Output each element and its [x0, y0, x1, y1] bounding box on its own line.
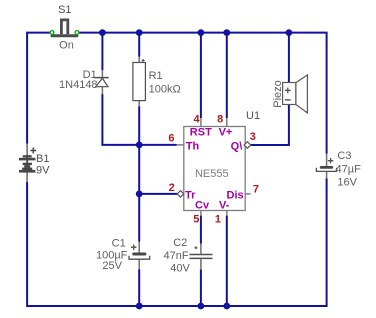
svg-text:47µF: 47µF	[336, 163, 362, 175]
svg-text:NE555: NE555	[195, 168, 229, 180]
capacitor C3 pins	[326, 154, 328, 179]
battery B1 plates	[19, 155, 35, 173]
wire top to piezo	[288, 33, 290, 87]
capacitor C3 bracket plate	[316, 168, 336, 172]
IC U1 NE555 body	[184, 127, 245, 211]
pin 2 diamond	[177, 191, 184, 198]
junction node ground C2	[198, 303, 205, 310]
svg-text:V+: V+	[219, 127, 233, 139]
junction node Th	[136, 142, 143, 149]
battery B1 pins	[26, 144, 28, 183]
svg-text:C2: C2	[173, 237, 187, 249]
capacitor C1 pins	[138, 242, 140, 270]
svg-text:3: 3	[250, 131, 256, 143]
resistor R1	[133, 63, 146, 101]
wire switch to top-right down to C3	[79, 33, 327, 154]
svg-text:4: 4	[193, 114, 200, 126]
svg-text:8: 8	[217, 114, 223, 126]
pin stub 4	[200, 118, 202, 127]
svg-text:Cv: Cv	[195, 199, 210, 211]
wire R1 bottom to C1	[138, 106, 140, 241]
svg-text:V-: V-	[219, 199, 230, 211]
wire pin5 to C2	[200, 216, 202, 244]
wire D1 branch upper	[101, 33, 103, 71]
junction node top D1	[99, 29, 106, 36]
svg-text:U1: U1	[246, 110, 260, 122]
svg-text:100kΩ: 100kΩ	[149, 84, 181, 96]
svg-text:S1: S1	[58, 4, 71, 16]
junction node ground pin1	[223, 303, 230, 310]
pin stub 5	[200, 211, 202, 216]
svg-text:RST: RST	[190, 127, 212, 139]
wire bottom loop left-bottom-right	[27, 178, 327, 306]
svg-text:40V: 40V	[170, 262, 190, 274]
diode D1	[94, 77, 109, 79]
C3 plus sign	[328, 158, 333, 163]
diode D1 pins	[101, 70, 103, 95]
wire pin8 up	[226, 33, 228, 118]
svg-text:1: 1	[215, 213, 221, 225]
wire C2 to ground rail	[200, 270, 202, 307]
svg-text:C1: C1	[112, 238, 126, 250]
svg-text:7: 7	[253, 184, 259, 196]
wire R1 branch upper	[138, 33, 140, 57]
svg-text:5: 5	[193, 213, 199, 225]
wire pin4 up	[200, 33, 202, 118]
junction node Tr	[136, 191, 143, 198]
switch S1	[50, 20, 79, 37]
svg-text:On: On	[59, 40, 74, 52]
svg-text:16V: 16V	[337, 177, 357, 189]
piezo plus	[285, 88, 291, 94]
wire piezo to pin3	[250, 101, 289, 145]
piezo horn	[296, 75, 308, 113]
pin stub 8	[226, 118, 228, 127]
svg-text:R1: R1	[149, 70, 163, 82]
svg-text:1N4148: 1N4148	[59, 79, 98, 91]
pin stub 7	[245, 193, 250, 195]
wire D1 branch lower to node	[102, 94, 139, 145]
svg-text:6: 6	[168, 133, 174, 145]
svg-text:Th: Th	[186, 141, 200, 153]
wire node to pin6	[139, 144, 176, 146]
wire pin1 to ground rail	[226, 216, 228, 307]
capacitor C1 plus plate	[132, 253, 146, 256]
piezo speaker body	[283, 83, 296, 105]
R1 pin1 marker	[142, 59, 145, 62]
svg-text:C3: C3	[337, 150, 351, 162]
junction node top R1	[136, 29, 143, 36]
svg-text:Q\: Q\	[231, 141, 243, 153]
C2 pin1 marker	[194, 246, 197, 249]
svg-text:9V: 9V	[36, 165, 50, 177]
wire C1 bottom to ground rail	[138, 269, 140, 306]
piezo minus	[285, 99, 291, 101]
junction node top pin4	[198, 29, 205, 36]
svg-text:Piezo: Piezo	[272, 80, 284, 108]
pin stub 6	[177, 144, 184, 146]
svg-text:B1: B1	[36, 153, 49, 165]
resistor R1 pins	[138, 57, 140, 107]
wire node to pin2	[139, 193, 178, 195]
svg-text:47nF: 47nF	[164, 250, 189, 262]
pin stub 1	[226, 211, 228, 216]
junction node top pin8	[223, 29, 230, 36]
wire top-left to switch	[27, 33, 50, 144]
C1 plus sign	[131, 245, 136, 250]
capacitor C2 plates	[190, 255, 213, 259]
battery plus sign	[30, 148, 36, 154]
junction node ground C1	[136, 303, 143, 310]
svg-text:2: 2	[169, 182, 175, 194]
junction node top piezo	[286, 29, 293, 36]
svg-text:25V: 25V	[102, 260, 122, 272]
capacitor C2 pins	[200, 244, 202, 270]
capacitor C3 plus plate	[320, 166, 333, 169]
pin 3 diamond	[244, 142, 251, 149]
capacitor C1 bracket plate	[129, 256, 150, 259]
